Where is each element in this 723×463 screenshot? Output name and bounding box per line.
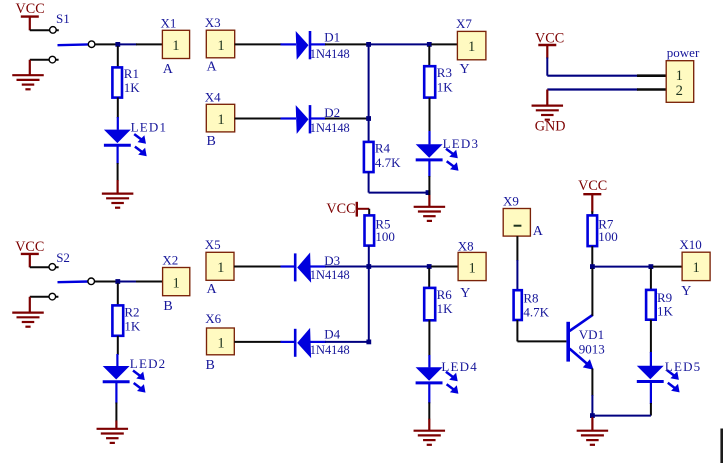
diode D3 <box>297 253 311 283</box>
ground (LED1) <box>102 194 134 208</box>
svg-text:1: 1 <box>469 260 476 276</box>
svg-text:D4: D4 <box>324 327 340 342</box>
svg-text:X6: X6 <box>205 311 221 326</box>
svg-text:X10: X10 <box>679 237 701 252</box>
scrollbar fragment bottom-right <box>720 429 723 463</box>
wire LED4 to ground <box>428 384 430 403</box>
wire D1 to node (top) <box>311 43 326 45</box>
connector X3 <box>206 30 234 58</box>
wire X6 to D4 <box>234 341 281 343</box>
wire VD1 emitter down <box>591 369 593 397</box>
svg-text:1N4148: 1N4148 <box>310 121 350 135</box>
svg-text:X3: X3 <box>205 15 221 30</box>
wire X7 node down to R3 <box>428 46 430 66</box>
wire LED2 to ground <box>115 383 117 404</box>
junction at X8/R6 <box>427 264 432 269</box>
wire X5 to D3 <box>234 266 281 268</box>
ground stem (VD1) <box>591 417 593 430</box>
connector X10 <box>682 252 710 280</box>
connector X4 <box>206 104 234 132</box>
junction D2 node <box>366 116 371 121</box>
ground (LED3) <box>414 207 446 221</box>
wire VCC to S2 throw 1 <box>30 266 59 268</box>
LED5 <box>637 366 664 380</box>
switch S1 common contact <box>88 41 95 48</box>
svg-text:power: power <box>667 45 700 60</box>
svg-text:A: A <box>207 59 218 74</box>
wire collector node to X10 node <box>594 266 649 268</box>
wire node A down to R1 <box>117 46 119 67</box>
svg-text:1: 1 <box>692 260 699 276</box>
ground (S1 block) <box>12 75 44 89</box>
svg-text:LED1: LED1 <box>131 119 168 134</box>
wire node B down to R2 <box>117 283 119 305</box>
svg-text:R1: R1 <box>124 66 139 81</box>
resistor R2 <box>112 305 123 335</box>
svg-text:S2: S2 <box>56 250 70 265</box>
wire VCC to power pin 1 <box>546 58 548 76</box>
resistor R7 <box>588 215 598 246</box>
svg-text:B: B <box>206 358 215 373</box>
LED3 <box>416 144 443 158</box>
svg-text:R6: R6 <box>437 287 453 302</box>
connector X9 <box>503 209 530 237</box>
svg-text:B: B <box>207 134 216 149</box>
switch S2 common arm wire <box>58 280 89 283</box>
wire X9 to R8 <box>516 236 518 261</box>
wire node to X10 <box>653 266 682 268</box>
resistor R3 <box>424 66 435 97</box>
wire D2 to node <box>311 117 326 119</box>
wire D4 to node <box>311 341 327 343</box>
ground (S2 block) <box>12 313 44 327</box>
diode D2 <box>296 105 309 134</box>
switch S1 common arm wire <box>58 43 89 46</box>
wire R9 to LED5 <box>650 320 652 353</box>
wire S1 common to node A <box>95 43 115 45</box>
connector X2 <box>163 268 190 296</box>
svg-text:A: A <box>207 282 218 297</box>
svg-text:VD1: VD1 <box>579 327 604 342</box>
svg-text:X5: X5 <box>205 237 221 252</box>
wire R2 to LED2 <box>117 336 119 355</box>
wire LED1 to ground <box>116 147 118 165</box>
svg-text:1K: 1K <box>124 319 140 334</box>
wire X4 to D2 <box>235 118 282 120</box>
svg-text:1: 1 <box>217 38 224 54</box>
junction at X7/R3 <box>427 42 432 47</box>
svg-text:D1: D1 <box>324 30 340 45</box>
svg-text:Y: Y <box>460 286 470 301</box>
svg-text:R3: R3 <box>437 65 452 80</box>
svg-text:VCC: VCC <box>578 178 607 194</box>
wire GND to power pin 2 <box>547 88 638 90</box>
svg-text:GND: GND <box>535 118 566 134</box>
wire emitter node to LED5 bottom <box>592 415 651 417</box>
wire LED3 to ground <box>428 161 430 177</box>
ground (power block) <box>532 106 564 120</box>
connector X1 <box>162 30 189 58</box>
wire node to X8 <box>431 266 458 268</box>
junction at LED3 bottom rail <box>426 190 431 195</box>
svg-text:2: 2 <box>676 83 683 99</box>
junction emitter-ground node <box>590 413 595 418</box>
svg-text:1K: 1K <box>657 303 674 318</box>
svg-text:4.7K: 4.7K <box>375 155 401 170</box>
junction D3-R5 node <box>366 264 371 269</box>
svg-text:X4: X4 <box>205 89 221 104</box>
LED4 <box>416 367 443 381</box>
svg-text:1: 1 <box>172 38 179 54</box>
wire R6 to LED4 <box>428 320 430 356</box>
svg-text:1: 1 <box>217 260 224 276</box>
ground (LED2) <box>97 429 129 443</box>
svg-text:X7: X7 <box>456 16 472 31</box>
wire R3 to LED3 <box>429 98 431 132</box>
resistor R5 <box>365 215 375 245</box>
svg-text:X2: X2 <box>162 253 178 268</box>
junction node A at R1 top <box>115 42 120 47</box>
ground (LED4) <box>414 431 446 445</box>
resistor R1 <box>112 67 122 97</box>
LED2 <box>103 366 130 380</box>
LED1 <box>104 130 131 144</box>
switch S1 throw contact 1 <box>50 27 57 34</box>
wire node A to X1 <box>120 43 138 45</box>
switch S1 throw contact 2 <box>49 56 56 63</box>
junction collector node <box>590 264 595 269</box>
diode D1 <box>296 31 309 60</box>
svg-text:100: 100 <box>375 229 395 244</box>
svg-text:1K: 1K <box>437 80 454 95</box>
resistor R6 <box>424 288 435 320</box>
wire D1 node to X7 node <box>371 43 428 45</box>
connector X6 <box>207 328 235 355</box>
resistor R4 <box>364 142 374 172</box>
svg-text:1: 1 <box>217 112 224 128</box>
junction at X10/R9 <box>649 264 654 269</box>
wire R5 to D3 node <box>368 245 370 265</box>
svg-text:B: B <box>163 299 172 314</box>
svg-text:LED4: LED4 <box>441 359 478 374</box>
svg-text:R8: R8 <box>523 291 538 306</box>
svg-text:1: 1 <box>217 336 224 352</box>
junction D1-D2 node <box>366 42 371 47</box>
connector power <box>666 61 694 103</box>
svg-text:100: 100 <box>598 229 618 244</box>
wire LED5 to emitter rail <box>650 383 652 404</box>
svg-text:1: 1 <box>468 39 475 55</box>
wire S2 throw 2 to ground <box>30 296 59 298</box>
svg-text:X9: X9 <box>503 194 519 209</box>
wire VCC to R7 <box>591 211 593 215</box>
wire node B to X2 <box>120 281 138 283</box>
wire X8 node down to R6 <box>428 268 430 288</box>
svg-text:X1: X1 <box>161 15 177 30</box>
wire R8 to VD1 base <box>516 320 518 341</box>
svg-text:R2: R2 <box>124 304 139 319</box>
switch S2 throw contact 2 <box>49 293 56 300</box>
ground (VD1) <box>577 431 609 445</box>
switch S2 common contact <box>88 278 95 285</box>
diode D4 <box>297 328 311 358</box>
switch S2 throw contact 1 <box>49 264 56 271</box>
connector X7 <box>457 31 486 59</box>
wire node to X7 <box>431 43 457 45</box>
svg-text:S1: S1 <box>56 11 70 26</box>
resistor R8 <box>514 290 522 320</box>
svg-text:1: 1 <box>172 275 179 291</box>
wire R1 to LED1 <box>117 97 119 118</box>
svg-text:X8: X8 <box>458 239 474 254</box>
svg-text:VCC: VCC <box>15 239 44 255</box>
svg-text:LED3: LED3 <box>443 136 480 151</box>
wire S2 common to node B <box>95 281 116 283</box>
svg-text:Y: Y <box>681 284 691 299</box>
wire X10 node down to R9 <box>650 268 652 290</box>
junction node B at R2 top <box>115 279 120 284</box>
wire S1 throw 2 to ground <box>30 59 59 61</box>
svg-text:VCC: VCC <box>16 1 45 17</box>
wire VCC to S1 throw 1 <box>30 29 59 31</box>
svg-text:A: A <box>533 224 544 239</box>
svg-text:9013: 9013 <box>579 341 605 356</box>
svg-text:1N4148: 1N4148 <box>310 268 350 282</box>
svg-text:1N4148: 1N4148 <box>310 47 350 61</box>
svg-text:VCC: VCC <box>326 201 355 217</box>
wire R4 to LED3 ground rail <box>368 172 370 193</box>
connector X8 <box>458 252 486 280</box>
wire vertical D3-D4 node <box>368 267 370 342</box>
connector X5 <box>206 252 234 280</box>
wire vertical D1-D2-R4 <box>368 44 370 118</box>
transistor VD1 <box>566 322 570 362</box>
svg-text:1: 1 <box>676 68 683 84</box>
svg-text:LED5: LED5 <box>665 359 702 374</box>
wire D3 to node <box>311 265 327 267</box>
svg-text:R4: R4 <box>375 141 391 156</box>
wire R7 to collector node <box>591 246 593 265</box>
junction D4 node <box>366 340 371 345</box>
wire VCC bar to R5 <box>357 208 369 210</box>
svg-text:A: A <box>163 62 174 77</box>
wire X3 to D1 <box>235 43 282 45</box>
svg-text:1N4148: 1N4148 <box>310 343 350 357</box>
resistor R9 <box>646 290 656 320</box>
wire D3 node to X8 node <box>371 266 428 268</box>
svg-text:LED2: LED2 <box>130 356 167 371</box>
svg-text:1K: 1K <box>437 301 454 316</box>
svg-text:1K: 1K <box>124 80 141 95</box>
svg-text:Y: Y <box>460 62 470 77</box>
wire collector node down to VD1 <box>591 268 593 316</box>
ground stem (power block) <box>546 90 548 106</box>
svg-text:4.7K: 4.7K <box>523 304 549 319</box>
pin dash label of X9 <box>514 225 522 227</box>
